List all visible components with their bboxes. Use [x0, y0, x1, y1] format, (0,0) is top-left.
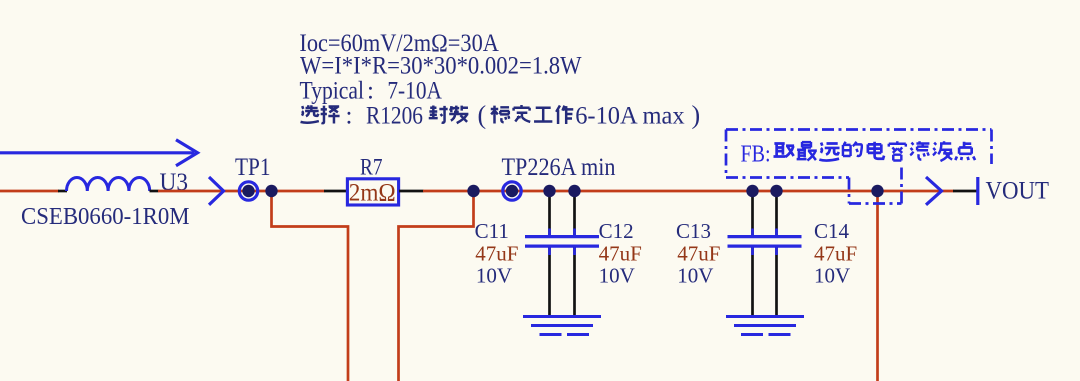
- svg-text:W=I*I*R=30*30*0.002=1.8W: W=I*I*R=30*30*0.002=1.8W: [300, 53, 582, 80]
- FB note text: [741, 141, 976, 167]
- svg-text:R7: R7: [360, 154, 383, 180]
- svg-text:10V: 10V: [476, 264, 512, 288]
- svg-text:47uF: 47uF: [677, 242, 720, 266]
- junction C14 pin: [770, 185, 782, 197]
- svg-text:47uF: 47uF: [814, 242, 857, 266]
- port VOUT pin: [953, 190, 977, 193]
- port VOUT bar: [976, 177, 979, 205]
- capacitor C11/C12 bottom legs: [548, 247, 551, 316]
- svg-text:C12: C12: [599, 219, 634, 243]
- svg-text:2mΩ: 2mΩ: [349, 178, 396, 207]
- svg-text:10V: 10V: [599, 264, 635, 288]
- ground (C11/C12): [523, 317, 601, 335]
- svg-text::: :: [367, 77, 374, 104]
- capacitor C11/C12 top legs: [548, 193, 551, 237]
- capacitor C13/C14 top legs: [751, 193, 754, 237]
- wire: kelvin sense right (node B down): [399, 191, 474, 381]
- annotation line 4: [301, 101, 701, 130]
- svg-text:FB:: FB:: [741, 142, 771, 168]
- wire: R7 right pin: [399, 190, 424, 193]
- test point TP1 center pad: [242, 185, 254, 197]
- svg-text:7-10A: 7-10A: [387, 77, 442, 104]
- svg-text:(: (: [478, 101, 487, 130]
- junction C12 pin: [568, 185, 580, 197]
- capacitor C11/C12 plates: [525, 235, 599, 238]
- junction at TP1 / kelvin sense left: [265, 185, 277, 197]
- wire: inductor to R7: [158, 190, 325, 193]
- svg-text:10V: 10V: [814, 264, 850, 288]
- ground (C13/C14): [726, 317, 804, 335]
- flow chevron 2: [926, 177, 942, 205]
- svg-text:C11: C11: [475, 219, 509, 243]
- junction C11 pin: [543, 185, 555, 197]
- svg-text:): ): [692, 101, 701, 130]
- FB dash-dot region box: [726, 130, 992, 204]
- resistor R7 body: [347, 179, 398, 205]
- capacitor C13/C14 bottom legs: [751, 247, 754, 316]
- junction at R7 right / kelvin sense right: [467, 185, 479, 197]
- top current-flow arrow: [0, 140, 198, 166]
- wire: main output net: [423, 190, 954, 193]
- svg-text:CSEB0660-1R0M: CSEB0660-1R0M: [21, 203, 190, 230]
- flow chevron 1: [209, 177, 224, 205]
- svg-text:TP1: TP1: [235, 154, 271, 181]
- wire: inductor left pin: [58, 190, 67, 193]
- svg-text:Typical: Typical: [300, 77, 365, 104]
- svg-text:TP226A min: TP226A min: [502, 154, 616, 181]
- capacitor C13/C14 plates: [728, 235, 802, 238]
- svg-text:6-10A max: 6-10A max: [575, 103, 685, 130]
- test point TP2 center pad: [506, 185, 518, 197]
- wire: R7 left pin: [324, 190, 348, 193]
- wire: input net (left of inductor): [0, 190, 59, 193]
- svg-text:VOUT: VOUT: [986, 178, 1050, 205]
- svg-text:C13: C13: [676, 219, 711, 243]
- capacitor blue pin stubs: [550, 229, 777, 256]
- junction C13 pin: [746, 185, 758, 197]
- wire: inductor right pin: [150, 190, 159, 193]
- svg-text:47uF: 47uF: [599, 242, 642, 266]
- test point TP2: [503, 182, 521, 200]
- test point TP1: [239, 182, 257, 200]
- svg-text:47uF: 47uF: [475, 242, 518, 266]
- wire: FB sense down: [876, 191, 879, 381]
- svg-text::: :: [346, 103, 353, 130]
- svg-text:R1206: R1206: [366, 103, 423, 130]
- svg-text:10V: 10V: [677, 264, 713, 288]
- inductor U3: [67, 178, 150, 192]
- junction node FB sense: [871, 185, 883, 197]
- wire: kelvin sense left (node A down): [272, 191, 349, 381]
- svg-text:C14: C14: [814, 219, 850, 243]
